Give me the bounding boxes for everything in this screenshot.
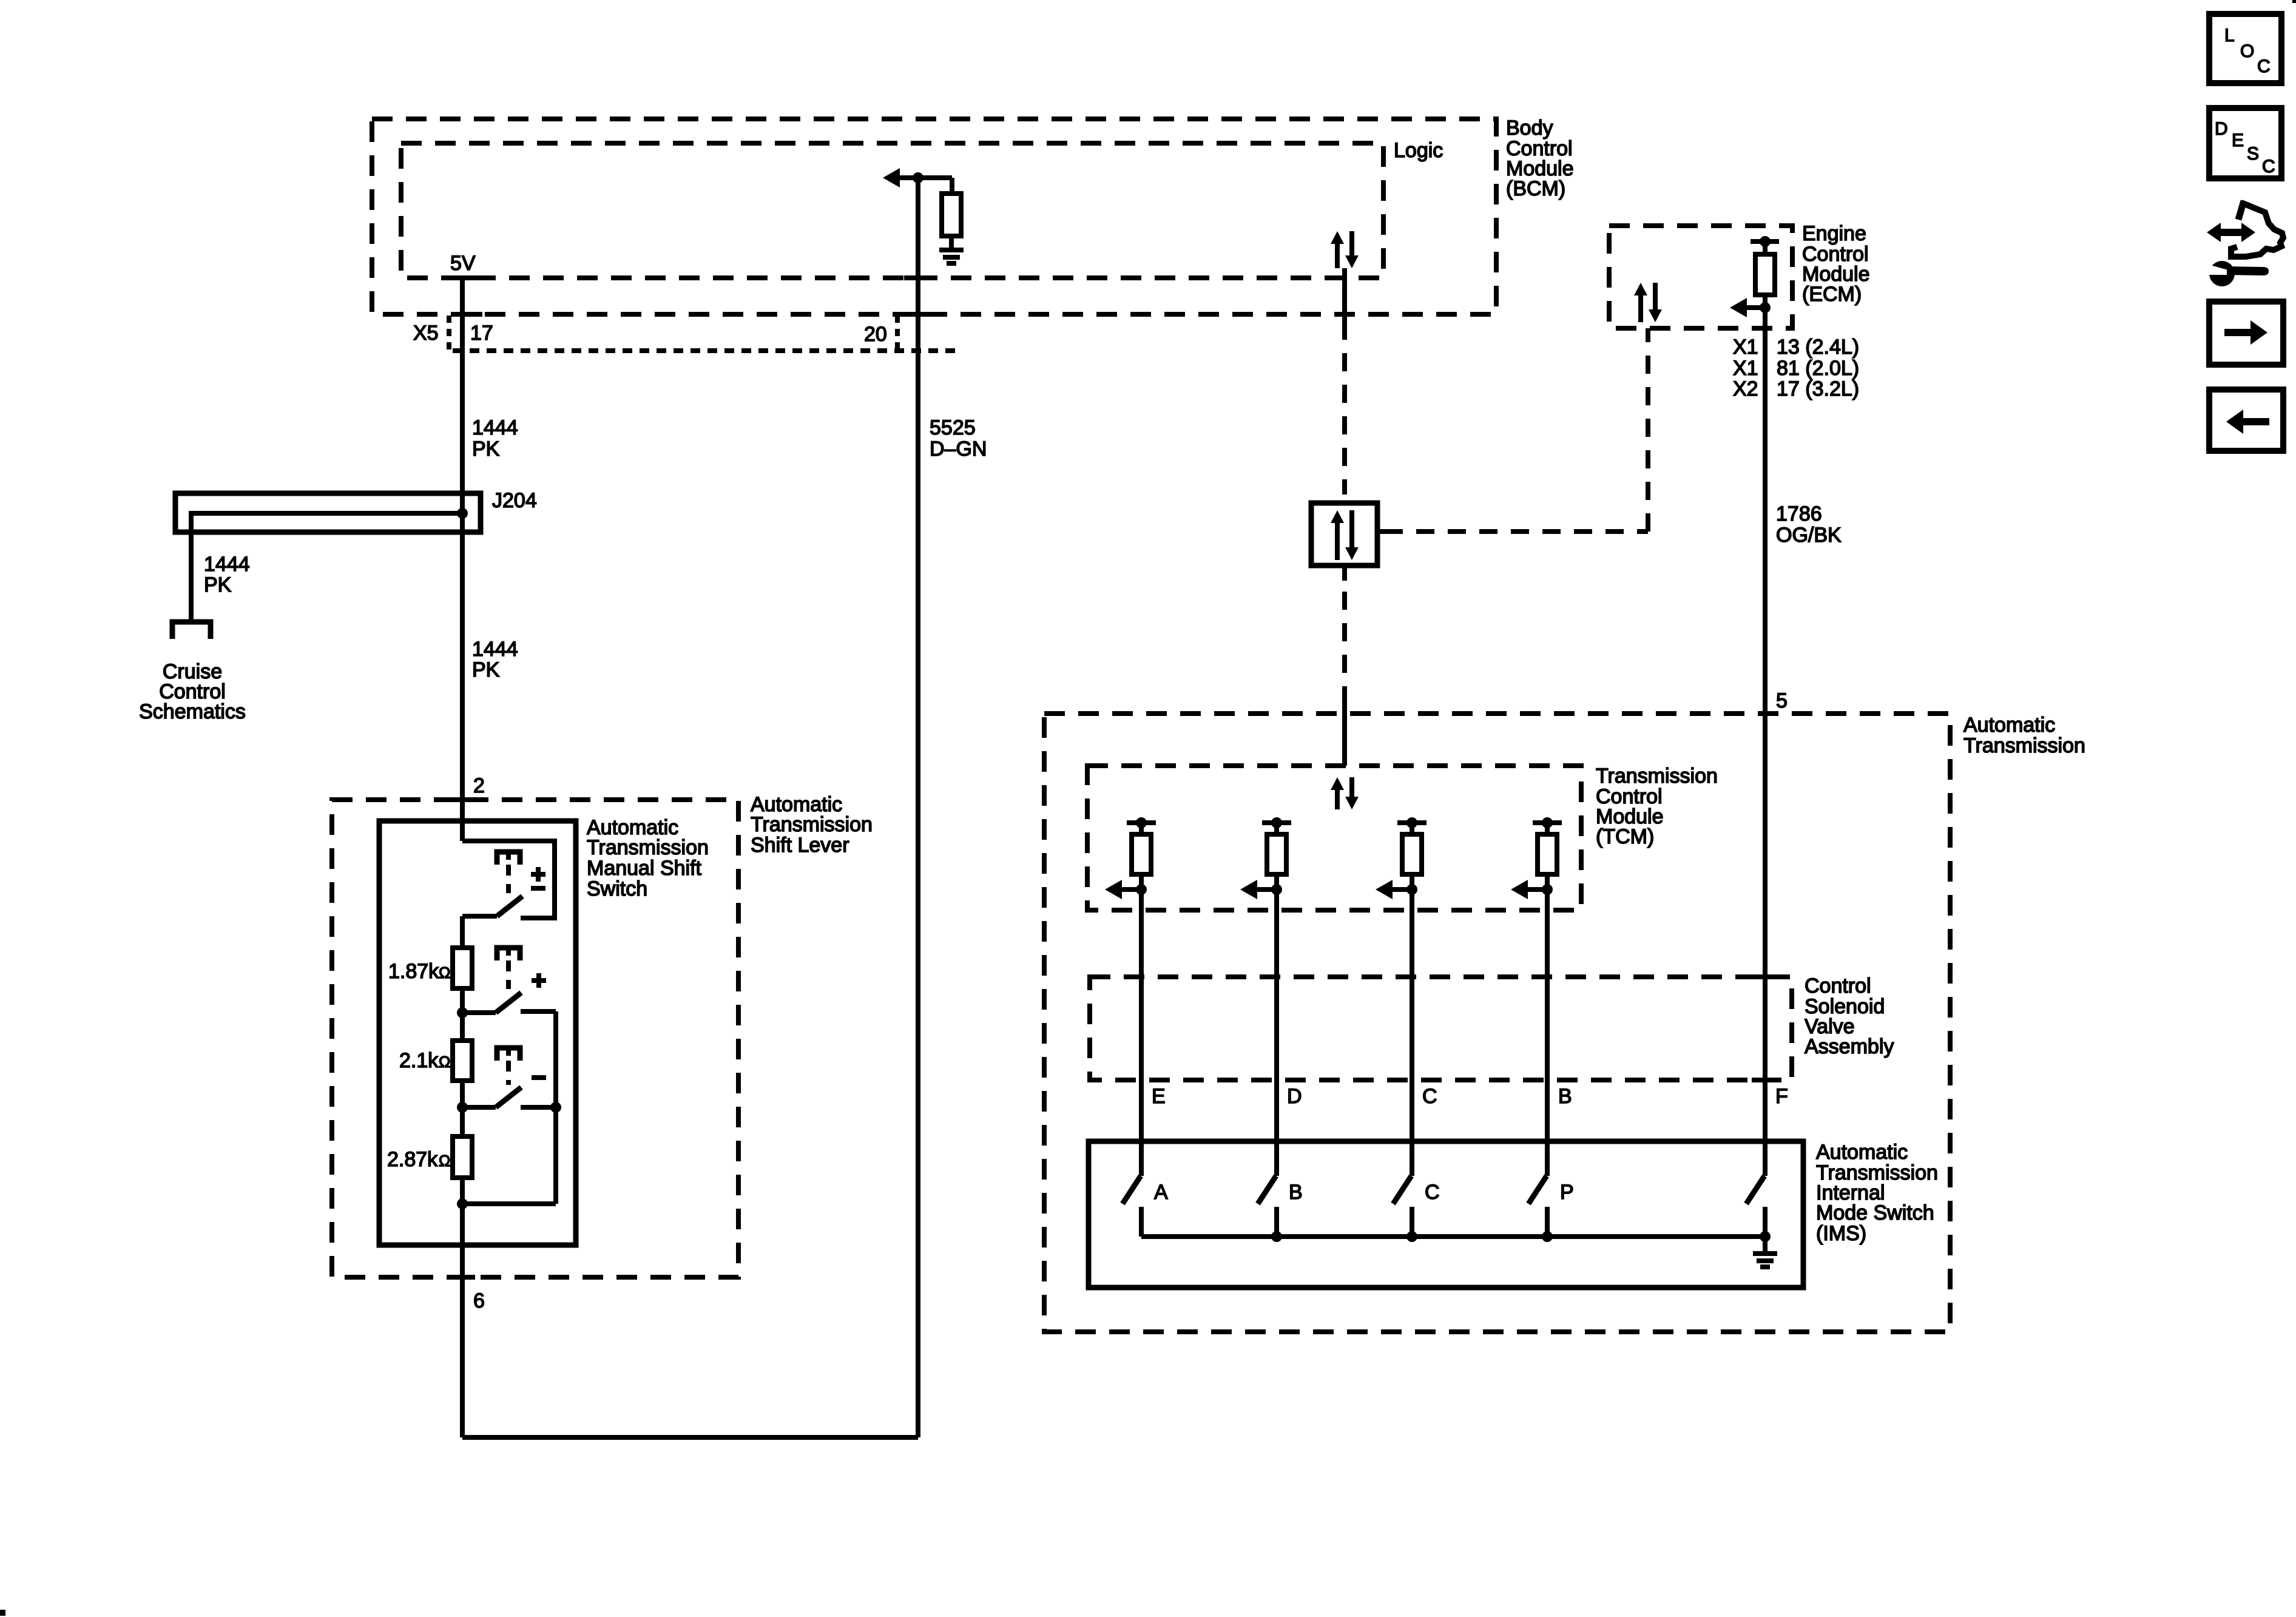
svg-text:Automatic: Automatic: [1963, 714, 2055, 737]
wire R2 to node3: [460, 1081, 465, 1136]
TCM driver 1 arrow: [1105, 880, 1122, 899]
svg-text:O: O: [2240, 41, 2254, 61]
svg-text:Logic: Logic: [1394, 139, 1443, 162]
svg-text:2.1k: 2.1k: [399, 1049, 439, 1072]
TCM driver 2 node: [1271, 884, 1282, 895]
switch 1 minus sign: [531, 886, 545, 891]
TCM driver 3 node top: [1406, 817, 1417, 828]
connector separator right: [895, 316, 900, 351]
svg-text:D–GN: D–GN: [930, 437, 987, 461]
TCM driver 3 node: [1406, 884, 1417, 895]
contact bus node: [550, 1102, 561, 1113]
svg-text:1444: 1444: [204, 553, 250, 576]
CAN line solid below logic: [1342, 268, 1347, 322]
ECM output arrow: [1730, 298, 1747, 317]
svg-text:S: S: [2247, 144, 2259, 164]
svg-text:Control: Control: [1805, 974, 1871, 998]
TCM driver 1 node top: [1136, 817, 1147, 828]
TCM driver 4 lead: [1545, 823, 1550, 834]
pin tick 20: [902, 312, 934, 317]
wire corner down to resistor: [950, 178, 954, 194]
wire to resistor chain: [460, 916, 465, 948]
pin tick 5V: [459, 275, 480, 280]
svg-text:Shift Lever: Shift Lever: [751, 834, 849, 857]
svg-text:13 (2.4L): 13 (2.4L): [1777, 336, 1859, 359]
ground in BCM: [939, 248, 964, 252]
Automatic Transmission Shift Lever dashed box: [332, 800, 738, 1277]
svg-text:5: 5: [1776, 689, 1788, 712]
svg-text:E: E: [2232, 130, 2244, 150]
svg-text:X1: X1: [1733, 336, 1758, 359]
solenoid wire C: [1410, 890, 1414, 1176]
switch 1 bracket: [497, 852, 520, 865]
Automatic Transmission Internal Mode Switch box: [1089, 1141, 1803, 1288]
IMS switch P blade: [1528, 1176, 1547, 1204]
svg-text:2: 2: [473, 774, 485, 797]
svg-text:X1: X1: [1733, 357, 1758, 380]
svg-text:5525: 5525: [930, 416, 976, 439]
svg-text:Switch: Switch: [587, 877, 647, 900]
svg-text:C: C: [2257, 56, 2271, 76]
ECM resistor: [1755, 254, 1775, 295]
svg-text:(IMS): (IMS): [1816, 1222, 1866, 1245]
switch 2 blade: [462, 1010, 496, 1015]
pin tick 2: [450, 797, 475, 802]
Control Solenoid Valve Assembly dashed box: [1090, 977, 1792, 1080]
svg-text:(ECM): (ECM): [1802, 283, 1862, 306]
resistor 2.1k: [453, 1041, 472, 1081]
IMS switch F blade: [1746, 1176, 1764, 1204]
X5 connector dashed row: [453, 348, 960, 353]
Transmission Control Module (TCM) dashed box: [1087, 766, 1581, 910]
CAN branch dashed to ECM horizontal: [1385, 529, 1648, 534]
J204 internal bus: [191, 511, 462, 516]
pin tick 17: [451, 312, 482, 317]
ECM resistor lower lead: [1763, 295, 1768, 310]
svg-text:A: A: [1154, 1181, 1168, 1204]
icon double arrow: [2207, 223, 2221, 242]
CAN junction arrows: [1335, 521, 1340, 560]
IMS ground stub: [1763, 1237, 1768, 1254]
node switch 2: [457, 1007, 468, 1018]
icon box DESC: [2209, 108, 2281, 178]
svg-text:(BCM): (BCM): [1506, 177, 1565, 200]
svg-text:Mode Switch: Mode Switch: [1816, 1201, 1934, 1224]
connector separator left: [447, 316, 451, 351]
TCM driver 2 lower lead: [1274, 874, 1279, 892]
switch 2 bracket: [497, 948, 520, 960]
svg-text:PK: PK: [472, 658, 500, 681]
off-page connector to cruise control: [172, 622, 211, 639]
CAN arrows in BCM logic: [1335, 242, 1340, 268]
switch 3 blade: [462, 1105, 496, 1110]
svg-text:Ω: Ω: [439, 1152, 450, 1170]
svg-text:X5: X5: [413, 322, 439, 345]
svg-text:P: P: [1560, 1181, 1574, 1204]
svg-text:1786: 1786: [1776, 502, 1822, 525]
svg-text:Ω: Ω: [439, 1053, 450, 1071]
Manual Shift Switch solid box: [379, 821, 576, 1245]
branch wire to cruise control: [189, 511, 194, 622]
TCM driver 2 tick: [1262, 820, 1291, 825]
solenoid wire E: [1139, 890, 1144, 1176]
svg-text:D: D: [2215, 119, 2228, 139]
pin tick 6: [450, 1275, 475, 1280]
svg-text:C: C: [2262, 157, 2275, 177]
bottom wire link: [462, 1435, 918, 1440]
switch 2 actuator dashes: [506, 960, 511, 989]
TCM driver 1 resistor: [1132, 834, 1151, 874]
page artifact dot top-right: [2292, 0, 2296, 3]
icon box left arrow: [2209, 390, 2283, 451]
ECM resistor lead: [1763, 241, 1768, 254]
IMS ground bus: [1141, 1234, 1765, 1239]
svg-text:81 (2.0L): 81 (2.0L): [1777, 357, 1859, 380]
wire 5525 D-GN vertical: [916, 175, 920, 1437]
svg-text:Ω: Ω: [439, 964, 450, 982]
wire R1 to node2: [460, 988, 465, 1041]
CAN arrows in ECM: [1638, 294, 1643, 322]
J204 junction dot: [457, 508, 468, 519]
IMS switch B blade: [1258, 1176, 1276, 1204]
page artifact dot bottom-left: [0, 1610, 5, 1616]
icon box LOC: [2209, 14, 2281, 83]
resistor 2.87k: [453, 1136, 472, 1178]
resistor 1.87k: [453, 948, 472, 988]
TCM driver 1 lead: [1139, 823, 1144, 834]
node switch 3: [457, 1102, 468, 1113]
IMS ground: [1753, 1251, 1777, 1256]
svg-text:E: E: [1152, 1085, 1166, 1108]
switch 1 blade: [462, 914, 497, 919]
Automatic Transmission dashed box: [1044, 714, 1950, 1332]
BCM internal pull-down: arrow to ground network: [883, 168, 900, 187]
svg-text:Assembly: Assembly: [1805, 1035, 1894, 1058]
svg-text:5V: 5V: [450, 252, 476, 275]
ECM tick node: [1760, 236, 1771, 247]
svg-text:1.87k: 1.87k: [388, 960, 439, 983]
icon car silhouette: [2238, 201, 2244, 220]
TCM driver 4 arrow: [1511, 880, 1528, 899]
switch 3 contact: [521, 1105, 556, 1110]
Logic dashed box: [401, 143, 1383, 278]
TCM driver 4 node top: [1542, 817, 1553, 828]
switch 1 actuator dashes: [506, 865, 511, 893]
svg-text:Transmission: Transmission: [1963, 734, 2085, 757]
svg-text:Body: Body: [1506, 116, 1553, 140]
switch 3 minus sign: [532, 1075, 546, 1080]
svg-text:C: C: [1422, 1085, 1437, 1108]
svg-text:PK: PK: [204, 573, 232, 596]
contact bus return: [462, 1201, 556, 1206]
svg-text:1444: 1444: [472, 638, 518, 661]
svg-text:Engine: Engine: [1802, 222, 1866, 245]
CAN line solid into TCM: [1342, 701, 1347, 766]
svg-text:Schematics: Schematics: [139, 700, 246, 723]
solenoid wire D: [1274, 890, 1279, 1176]
switch 3 bracket: [497, 1048, 520, 1061]
svg-text:B: B: [1558, 1085, 1572, 1108]
TCM driver 3 lower lead: [1410, 874, 1414, 892]
svg-text:Automatic: Automatic: [1816, 1141, 1908, 1164]
TCM driver 2 node top: [1271, 817, 1282, 828]
svg-text:X2: X2: [1733, 377, 1758, 400]
svg-text:2.87k: 2.87k: [387, 1148, 438, 1171]
CAN stub below box: [1342, 565, 1347, 581]
svg-text:Transmission: Transmission: [587, 836, 709, 859]
wire R3 to exit: [460, 1178, 465, 1437]
switch 3 actuator dashes: [506, 1061, 511, 1085]
TCM driver 1 node: [1136, 884, 1147, 895]
resistor lead to ground: [949, 234, 954, 250]
svg-text:(TCM): (TCM): [1596, 825, 1654, 848]
IMS switch B lower stub: [1274, 1207, 1279, 1237]
IMS switch F lower stub: [1763, 1207, 1768, 1237]
svg-text:20: 20: [864, 323, 887, 346]
switch 2 contact: [521, 1009, 556, 1014]
Body Control Module (BCM) dashed box: [372, 119, 1496, 314]
IMS switch C lower stub: [1410, 1207, 1414, 1237]
solenoid wire B: [1545, 890, 1550, 1176]
pin tick W2 logic: [904, 275, 931, 280]
IMS switch A lower stub: [1139, 1207, 1144, 1237]
TCM driver 3 lead: [1410, 823, 1414, 834]
CSVA tick F bottom: [1752, 1078, 1778, 1082]
switch 2 plus sign: [536, 973, 541, 981]
bus node C: [1406, 1231, 1417, 1242]
TCM driver 3 tick: [1397, 820, 1427, 825]
svg-text:1444: 1444: [472, 416, 518, 439]
wire 1786 OG/BK: [1763, 308, 1768, 1176]
svg-text:F: F: [1775, 1085, 1788, 1108]
CAN branch stub: [1377, 529, 1386, 534]
wire 1444 PK main vertical: [460, 276, 465, 841]
icon wrench: [2209, 261, 2235, 286]
TCM driver 4 lower lead: [1545, 874, 1550, 892]
svg-text:17 (3.2L): 17 (3.2L): [1777, 377, 1859, 400]
svg-text:J204: J204: [492, 489, 537, 512]
CSVA tick F top: [1752, 974, 1778, 979]
TCM driver 3 arrow: [1376, 880, 1393, 899]
switch 1 plus sign: [536, 867, 541, 874]
svg-text:Transmission: Transmission: [751, 813, 873, 836]
resistor in BCM logic: [942, 194, 961, 236]
TCM driver 2 resistor: [1267, 834, 1286, 874]
CAN arrows at TCM: [1335, 788, 1340, 809]
TCM driver 2 lead: [1274, 823, 1279, 834]
TCM driver 4 node: [1542, 884, 1553, 895]
Engine Control Module (ECM) dashed box: [1609, 226, 1792, 328]
node on 5525 wire: [913, 172, 923, 183]
ECM pull-up tick: [1751, 239, 1779, 244]
bottom node: [457, 1198, 468, 1209]
CAN line dashed to junction box: [1342, 322, 1347, 495]
svg-text:L: L: [2224, 25, 2235, 46]
IMS switch C blade: [1393, 1176, 1411, 1204]
icon box right arrow: [2209, 302, 2283, 365]
svg-text:17: 17: [470, 322, 493, 345]
TCM driver 3 resistor: [1402, 834, 1422, 874]
svg-text:OG/BK: OG/BK: [1776, 524, 1842, 547]
IMS switch P lower stub: [1545, 1207, 1550, 1237]
J204 splice pack box: [175, 493, 481, 532]
TCM driver 4 resistor: [1538, 834, 1557, 874]
svg-text:Transmission: Transmission: [1596, 765, 1718, 788]
feed jog to switch 1 contact: [462, 841, 555, 918]
svg-text:D: D: [1287, 1085, 1302, 1108]
TCM driver 1 tick: [1127, 820, 1156, 825]
ECM output node: [1760, 302, 1771, 313]
TCM driver 1 lower lead: [1139, 874, 1144, 892]
bus node F: [1760, 1231, 1771, 1242]
TCM driver 4 tick: [1533, 820, 1562, 825]
TCM driver 2 arrow: [1240, 880, 1257, 899]
CAN junction box: [1311, 503, 1377, 565]
bus node P: [1542, 1231, 1553, 1242]
svg-text:Manual Shift: Manual Shift: [587, 857, 702, 880]
CAN branch dashed to ECM vertical: [1646, 328, 1650, 532]
IMS switch A blade: [1123, 1176, 1141, 1204]
bus node B: [1271, 1231, 1282, 1242]
CAN line dashed to TCM: [1342, 592, 1347, 701]
contact bus vertical: [553, 1011, 558, 1204]
svg-text:C: C: [1425, 1181, 1440, 1204]
svg-text:6: 6: [473, 1289, 485, 1312]
svg-text:B: B: [1289, 1181, 1303, 1204]
svg-text:PK: PK: [472, 437, 500, 461]
